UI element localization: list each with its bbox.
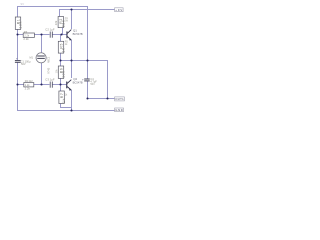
net label +9V	[115, 8, 124, 12]
svg-text:R7: R7	[60, 93, 64, 99]
svg-text:MIC1: MIC1	[46, 56, 50, 63]
wire Q2 emitter	[71, 90, 73, 110]
wire right column C4 top	[87, 61, 89, 79]
transistor Q2	[66, 77, 83, 90]
wire OUT net	[88, 98, 115, 100]
wire R7 bottom jog	[61, 104, 72, 108]
wire R5 top lead	[60, 35, 62, 42]
resistor R2	[54, 17, 69, 28]
capacitor C4 (electrolytic on right column)	[82, 77, 97, 86]
net label OUT	[115, 97, 125, 101]
svg-text:Q2: Q2	[73, 77, 77, 81]
resistor R1	[15, 17, 22, 29]
resistor R6	[55, 66, 65, 78]
svg-text:10k: 10k	[19, 21, 23, 29]
node mid base2	[59, 83, 61, 85]
svg-text:50V: 50V	[21, 62, 26, 66]
svg-text:BC547B: BC547B	[73, 32, 83, 36]
wire mic top lead	[41, 35, 43, 53]
node mid base1	[60, 33, 62, 35]
wire mic bottom lead	[41, 63, 43, 85]
capacitor C3 (coupling to Q2)	[45, 78, 55, 88]
svg-text:10k: 10k	[62, 70, 66, 78]
node corner line at OUT	[106, 97, 108, 99]
svg-text:GND: GND	[115, 108, 123, 112]
svg-text:M1: M1	[30, 56, 34, 59]
wire C4 bottom to OUT	[87, 81, 89, 98]
node mic top	[40, 33, 42, 35]
wire base net 2 left segment	[18, 84, 50, 86]
capacitor C1 (electrolytic on left column)	[15, 56, 31, 66]
wire emitter net	[61, 61, 108, 99]
svg-text:9745: 9745	[46, 67, 50, 73]
svg-text:22k: 22k	[54, 20, 58, 25]
node C4 bottom at OUT	[86, 97, 88, 99]
junction dots	[16, 8, 108, 111]
svg-text:R4 2k2: R4 2k2	[25, 80, 34, 83]
svg-text:+9V: +9V	[115, 8, 122, 12]
capacitor C2	[45, 28, 55, 38]
wire left column C1 to bottom rail	[18, 62, 115, 111]
svg-text:9V: 9V	[21, 2, 25, 6]
wire R2 bottom lead	[62, 28, 64, 35]
wire Q1 emitter to Q2 collector	[71, 40, 73, 78]
svg-text:C2 1µF: C2 1µF	[45, 28, 55, 32]
transistor Q1	[66, 28, 82, 40]
wire base net 2 right segment	[53, 84, 67, 86]
svg-text:Q1: Q1	[73, 28, 77, 32]
node Q1 collector tap	[70, 8, 72, 10]
node mic bottom	[40, 83, 42, 85]
node left/base2	[16, 83, 18, 85]
resistor R5	[58, 41, 68, 54]
svg-text:OUT1: OUT1	[115, 97, 124, 101]
resistor R3 (horizontal)	[23, 30, 34, 41]
svg-text:1k: 1k	[62, 98, 66, 103]
node right column emitter net	[86, 59, 88, 61]
svg-text:C3 1µF: C3 1µF	[45, 78, 55, 82]
net label GND	[115, 108, 124, 112]
wire R6 to R7	[60, 78, 62, 91]
wire left column R1 to C1	[17, 29, 19, 60]
svg-text:+: +	[16, 56, 18, 60]
node Q2 emitter at rail	[70, 109, 72, 111]
resistor R7	[59, 91, 68, 104]
wire Q1 collector	[71, 10, 73, 29]
wire base net 1 right segment	[53, 34, 67, 36]
node mid emitter	[59, 59, 61, 61]
wire label feed	[60, 10, 115, 17]
wire top rail	[18, 7, 88, 61]
microphone MIC1	[30, 53, 51, 74]
node Q1 emitter tap	[70, 59, 72, 61]
resistor R4 (horizontal)	[24, 80, 34, 91]
svg-text:R3: R3	[24, 30, 28, 34]
svg-text:2.2k: 2.2k	[23, 37, 29, 41]
wire R5 to R6	[60, 53, 62, 66]
svg-text:2.2k: 2.2k	[25, 87, 31, 91]
node left/base1	[16, 33, 18, 35]
wire base net 1 left segment	[18, 34, 50, 36]
svg-text:50V: 50V	[90, 83, 95, 86]
svg-text:1k: 1k	[62, 48, 66, 53]
svg-text:+: +	[82, 77, 84, 81]
